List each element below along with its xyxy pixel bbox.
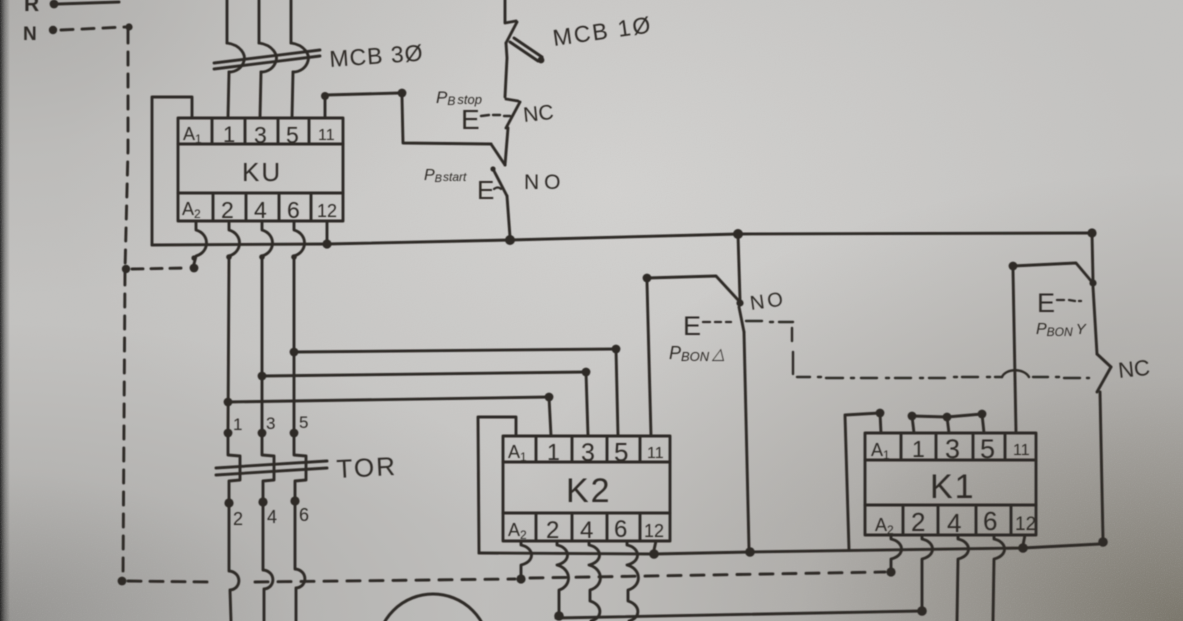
overload relay TOR trip bar (double line)	[216, 461, 327, 475]
wire motor line bottom	[556, 611, 922, 618]
svg-text:1: 1	[912, 436, 925, 462]
wire phase L2 top	[258, 0, 261, 43]
node K1 12 stub	[1018, 535, 1028, 553]
svg-text:5: 5	[299, 413, 308, 432]
svg-text:12: 12	[1015, 514, 1036, 535]
svg-text:K1: K1	[930, 468, 976, 506]
contactor K1 outline	[865, 433, 1036, 535]
wire PBON Y lever to NC	[1093, 287, 1097, 354]
svg-text:PBstart: PBstart	[424, 167, 467, 185]
wire L3 MCB to KU-5	[292, 72, 293, 118]
wire TOR1 down with hop over neutral	[229, 505, 239, 621]
wire phase L3 top	[290, 0, 293, 43]
wire L1 MCB to KU-1	[228, 72, 229, 118]
node bus corner PBON Y	[1087, 228, 1096, 237]
svg-text:12: 12	[317, 201, 337, 221]
node K1 A2 on neutral	[886, 567, 895, 576]
linkage dash-dot from PBON delta	[746, 321, 1089, 378]
svg-text:3: 3	[266, 414, 275, 433]
svg-text:5: 5	[614, 437, 628, 467]
label E actuator of PBON delta	[683, 311, 731, 341]
wire TOR3 down with hop over neutral	[263, 504, 273, 621]
wire KU 11 up and over to PB stop	[325, 93, 400, 118]
wire KU A2 hop	[194, 221, 207, 264]
circuit breaker MCB 3P pole 1	[227, 43, 244, 72]
svg-text:3: 3	[254, 122, 267, 148]
overload relay TOR pole 1	[224, 415, 243, 529]
wire coil line (second rung)	[479, 544, 1100, 554]
wire tap to K2 pin5	[294, 349, 616, 352]
svg-text:11: 11	[318, 127, 335, 144]
node bus tap PBON delta	[733, 229, 743, 239]
wire phase W column (KU6 to TOR5)	[293, 257, 296, 433]
svg-text:E: E	[1037, 288, 1055, 318]
label E actuator of PB stop	[461, 104, 510, 135]
svg-text:3: 3	[581, 439, 595, 467]
svg-text:5: 5	[980, 434, 995, 464]
wire neutral dashed vertical (left side)	[123, 30, 128, 578]
node PBON delta wire on rung	[745, 547, 755, 557]
wire phase L1 top	[226, 0, 229, 43]
svg-text:1: 1	[223, 122, 235, 147]
node tap L1 to K2	[224, 398, 233, 407]
svg-text:KU: KU	[242, 157, 282, 187]
wire K1 A1 loop	[845, 409, 884, 550]
svg-text:6: 6	[299, 505, 309, 525]
svg-text:E: E	[683, 311, 701, 341]
svg-text:NO: NO	[524, 171, 566, 194]
node K2 A2 on neutral	[516, 574, 525, 583]
wire PBON delta down to K2 12 line	[744, 332, 749, 549]
svg-text:2: 2	[221, 197, 234, 223]
wire control bus (main rung)	[152, 233, 1092, 245]
node NC wire to rung	[1098, 537, 1108, 547]
circuit breaker MCB 3P trip bar (double line)	[214, 50, 320, 69]
wire phase U column (KU2 to TOR1)	[228, 257, 229, 433]
node K2 12 on rung	[649, 541, 659, 559]
svg-text:3: 3	[945, 434, 960, 464]
wire K1 jumper 1-3-5	[908, 410, 987, 433]
wire K1 11 up	[1013, 270, 1016, 433]
wire tap to K2 pin3	[262, 372, 586, 376]
wire K2 A2 hop to neutral	[521, 541, 532, 574]
svg-text:1: 1	[233, 415, 242, 434]
overload relay TOR pole 3	[290, 413, 309, 525]
svg-text:6: 6	[287, 197, 300, 223]
wire TOR5 down with hop over neutral	[295, 502, 305, 621]
svg-text:11: 11	[647, 445, 664, 462]
wire L2 MCB to KU-3	[260, 72, 261, 118]
svg-text:E: E	[477, 175, 494, 205]
svg-text:E: E	[461, 104, 480, 135]
node corner above PB stop	[398, 89, 407, 98]
wire KU 4 hop	[262, 221, 273, 256]
wire K2 A1 loop	[478, 417, 516, 553]
wire KU 2 hop	[229, 221, 240, 256]
wire K1 6 hop down	[993, 535, 1005, 621]
wire K2 4 hops down	[589, 541, 600, 621]
wire K1 4 hop down	[957, 535, 969, 621]
svg-text:2: 2	[911, 507, 925, 537]
limit contact NC (K? aux)	[1097, 354, 1111, 539]
svg-text:4: 4	[580, 517, 593, 544]
circuit breaker MCB 1P	[505, 0, 544, 97]
svg-text:11: 11	[1013, 442, 1030, 459]
svg-text:6: 6	[983, 506, 997, 536]
node small blobs at hop ends	[191, 254, 296, 260]
motor M circle	[377, 594, 489, 621]
svg-text:NC: NC	[522, 101, 555, 127]
node neutral bottom corner	[118, 577, 127, 586]
svg-text:12: 12	[644, 521, 664, 541]
node tap L2 to K2	[258, 372, 267, 381]
label E actuator of PBON Y	[1037, 288, 1081, 318]
svg-text:N: N	[23, 24, 37, 45]
svg-text:2: 2	[233, 509, 243, 529]
node tap L3 to K2	[290, 348, 299, 357]
wire K1 A2 hop to neutral	[891, 535, 902, 568]
svg-text:TOR: TOR	[336, 451, 398, 484]
pushbutton PBON delta NO contact	[643, 234, 744, 332]
node N (neutral terminal)	[23, 24, 57, 45]
svg-text:5: 5	[286, 122, 299, 148]
contactor K2 outline	[503, 436, 670, 541]
node R (phase terminal, top left)	[24, 0, 119, 16]
wire K2 6 hops down	[627, 541, 638, 621]
wire phase V column (KU4 to TOR3)	[261, 257, 264, 433]
wire neutral dashed bottom run	[128, 581, 210, 582]
wire K2 2 hops down	[557, 541, 569, 612]
svg-text:R: R	[24, 0, 39, 16]
circuit breaker MCB 3P pole 2	[259, 43, 276, 72]
pushbutton PB start NO contact	[490, 166, 510, 237]
svg-text:NC: NC	[1117, 355, 1151, 383]
circuit breaker MCB 3P pole 3	[291, 43, 308, 72]
wire tap to K2 pin1	[228, 397, 549, 402]
wire K1 2 hop down to motor line	[922, 535, 933, 607]
contactor KU outline	[178, 118, 343, 221]
svg-text:4: 4	[947, 508, 961, 538]
node KU 12 stub on bus	[322, 221, 331, 249]
wire neutral dashed horizontal from N	[61, 27, 125, 30]
node PB start output on bus	[505, 235, 515, 245]
wire KU A1 loop to control bus	[152, 97, 192, 245]
svg-text:6: 6	[614, 516, 627, 543]
wire KU 6 hop	[294, 221, 305, 256]
overload relay TOR pole 2	[258, 414, 277, 527]
node junction neutral to KU A2	[122, 264, 199, 274]
svg-text:4: 4	[254, 197, 267, 223]
wire down from corner to NC level	[402, 97, 491, 144]
pushbutton PB stop NC contact	[491, 99, 520, 165]
wire K2 11 from PBON delta pivot	[647, 282, 651, 436]
svg-text:1: 1	[547, 439, 560, 465]
node K2 2 to motor line	[554, 611, 564, 621]
label E actuator of PB start	[477, 175, 501, 205]
svg-text:4: 4	[267, 507, 277, 527]
pushbutton PBON Y NO contact	[1009, 233, 1097, 287]
svg-text:K2: K2	[566, 472, 612, 510]
